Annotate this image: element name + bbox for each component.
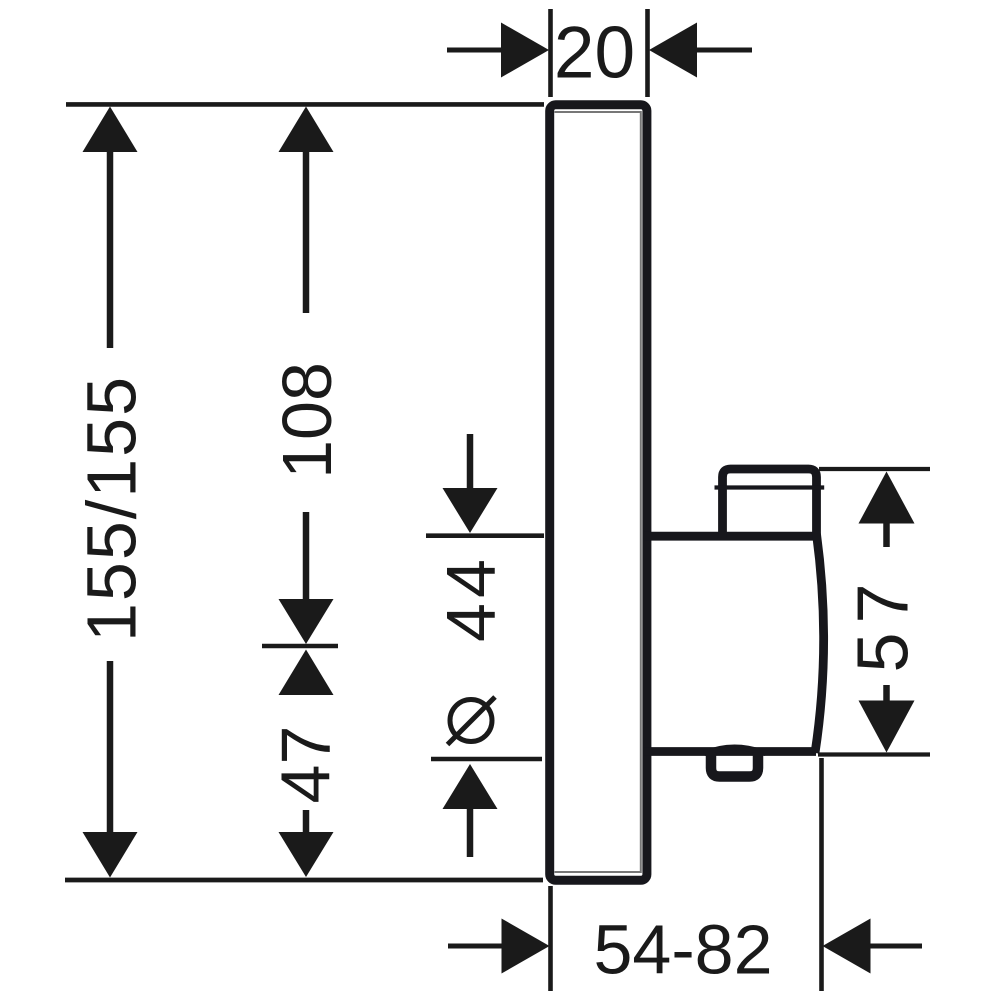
plate outer outline — [550, 105, 647, 881]
handle cap ridge line — [715, 485, 825, 489]
svg-text:7: 7 — [844, 583, 924, 623]
dimension 155/155 lower arrowhead — [83, 832, 138, 878]
dimension 57 lower arrowhead — [859, 701, 915, 753]
dimension 44 lower arrowhead — [443, 764, 498, 809]
dimension 57 bottom extension line — [818, 752, 930, 756]
dimension 54-82 right tail — [868, 944, 922, 949]
tick between 108 and 47 — [262, 644, 338, 649]
dimension 44 upper stem — [467, 434, 474, 495]
dimension 20 right extension line — [645, 9, 650, 97]
svg-text:155/155: 155/155 — [73, 375, 151, 642]
plate inner face line — [555, 112, 641, 872]
dimension 155/155 line lower segment — [107, 661, 114, 840]
dimension 20 left extension line — [548, 9, 553, 97]
dimension 20 right tail — [695, 48, 752, 53]
dimension 44 upper arrowhead — [443, 488, 498, 533]
svg-text:54-82: 54-82 — [593, 911, 772, 989]
svg-text:44: 44 — [432, 554, 510, 642]
dimension 108 upper arrowhead — [279, 107, 334, 153]
dimension 47 lower line segment — [303, 810, 310, 836]
dimension 57 top extension line — [819, 467, 930, 471]
top extension line (upper object line) — [66, 102, 544, 107]
bottom extension line (lower object line) — [65, 878, 543, 883]
svg-text:108: 108 — [268, 362, 346, 479]
dimension 54-82 right arrowhead — [823, 919, 871, 974]
dimension 54-82 right extension line — [819, 758, 824, 991]
dimension 57 upper arrowhead — [859, 472, 915, 524]
tick 44 lower — [431, 757, 542, 762]
handle bottom clip loop — [711, 753, 758, 777]
dimension 20 left tail — [447, 48, 503, 53]
handle body bottom line — [644, 747, 816, 756]
svg-text:20: 20 — [554, 13, 635, 94]
dimension 155/155 upper arrowhead — [83, 107, 138, 153]
handle body right edge curve — [815, 534, 824, 753]
label diameter symbol circle — [450, 700, 492, 742]
tick 44 upper — [426, 533, 544, 538]
dimension 20 right arrowhead — [649, 23, 697, 78]
handle bottom clip bump — [704, 747, 766, 753]
dimension 57 upper stem — [883, 514, 890, 547]
label diameter symbol slash — [448, 697, 496, 745]
dimension 54-82 left tail — [448, 944, 505, 949]
svg-text:5: 5 — [844, 632, 924, 672]
handle body top line — [644, 532, 818, 541]
dimension 108 line segment lower — [303, 512, 310, 606]
svg-text:47: 47 — [267, 726, 345, 804]
dimension 54-82 left arrowhead — [502, 919, 550, 974]
dimension 155/155 line upper segment — [107, 150, 114, 348]
dimension 47 upper arrowhead — [279, 650, 334, 696]
dimension 108 line segment upper — [303, 150, 310, 313]
dimension 108 lower arrowhead — [279, 599, 334, 644]
dimension 47 lower arrowhead — [279, 832, 334, 877]
dimension 57 lower stem — [883, 685, 890, 702]
dimension 20 left arrowhead — [501, 23, 549, 78]
handle cap outline — [723, 469, 817, 538]
dimension 44 lower stem — [467, 806, 474, 857]
dimension 54-82 left extension line — [548, 886, 553, 991]
